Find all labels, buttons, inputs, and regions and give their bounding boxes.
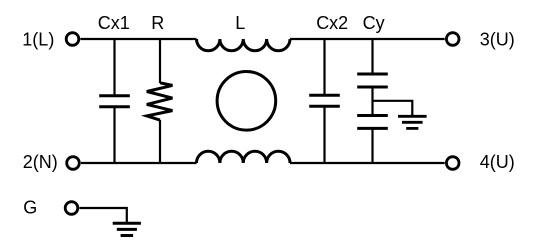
terminal 1(L) bbox=[66, 33, 79, 46]
terminal 2(N) bbox=[67, 157, 80, 170]
wire Cy midpoint tap to ground bbox=[373, 101, 413, 117]
svg-text:1(L): 1(L) bbox=[22, 30, 54, 50]
wire bottom rail right segment bbox=[290, 162, 445, 164]
capacitor Cy upper bbox=[357, 74, 388, 87]
wire Cx1 top leg bbox=[113, 39, 115, 96]
resistor R bbox=[147, 83, 173, 120]
svg-text:R: R bbox=[151, 13, 164, 33]
wire Cy middle bbox=[371, 87, 373, 116]
wire Cx1 bottom leg bbox=[113, 107, 115, 163]
ground at Cy tap bbox=[398, 116, 427, 128]
inductor L top winding bbox=[197, 39, 291, 51]
wire R bottom leg bbox=[159, 120, 161, 163]
terminal G bbox=[65, 202, 78, 215]
svg-text:3(U): 3(U) bbox=[480, 30, 515, 50]
wire Cy bottom leg bbox=[371, 128, 373, 163]
capacitor Cx2 bbox=[309, 95, 340, 106]
capacitor Cx1 bbox=[99, 96, 130, 107]
svg-text:Cx2: Cx2 bbox=[316, 13, 348, 33]
svg-text:Cx1: Cx1 bbox=[98, 13, 130, 33]
capacitor Cy lower bbox=[357, 116, 388, 129]
svg-text:L: L bbox=[235, 13, 245, 33]
svg-text:G: G bbox=[23, 198, 37, 218]
svg-text:Cy: Cy bbox=[363, 13, 385, 33]
terminal 4(U) bbox=[446, 157, 459, 170]
wire Cx2 top leg bbox=[323, 39, 325, 95]
wire R top leg bbox=[159, 39, 161, 83]
wire top rail right segment bbox=[290, 38, 445, 40]
wire top rail left segment bbox=[80, 38, 196, 40]
wire G to ground bbox=[79, 208, 126, 223]
choke core circle of L bbox=[217, 72, 276, 131]
svg-text:2(N): 2(N) bbox=[23, 152, 58, 172]
wire Cy top leg bbox=[371, 39, 373, 74]
ground at G bbox=[113, 223, 141, 235]
wire Cx2 bottom leg bbox=[323, 106, 325, 163]
svg-text:4(U): 4(U) bbox=[480, 152, 515, 172]
terminal 3(U) bbox=[446, 33, 459, 46]
inductor L bottom winding bbox=[197, 151, 291, 163]
wire bottom rail left segment bbox=[81, 162, 197, 164]
